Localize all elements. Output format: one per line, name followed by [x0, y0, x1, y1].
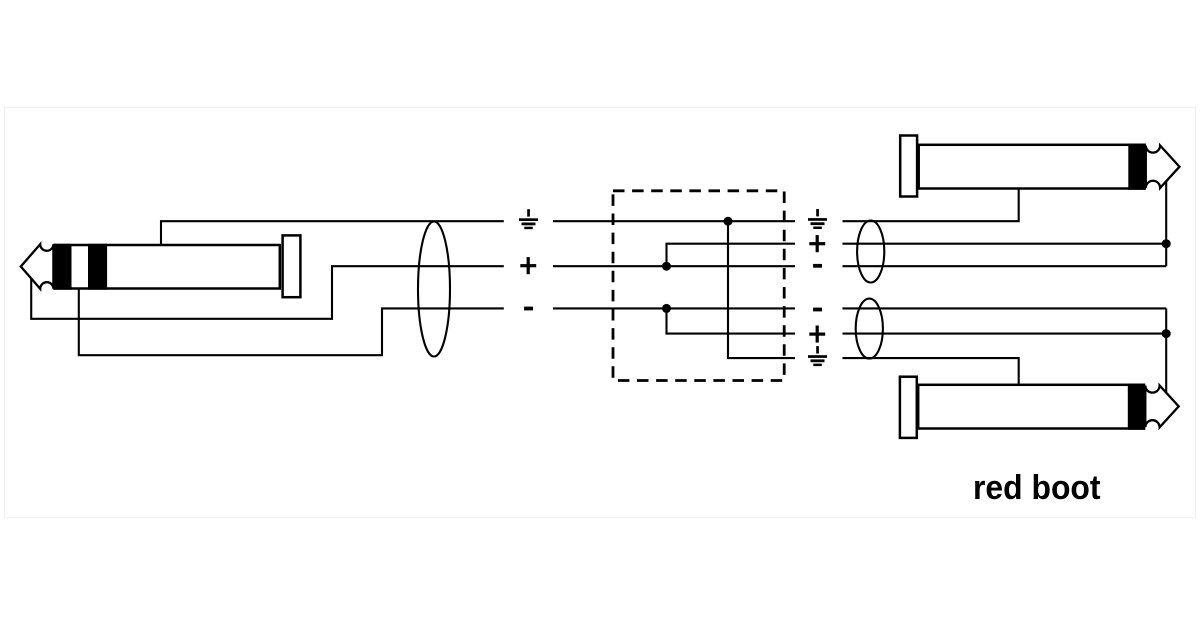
svg-text:red boot: red boot [973, 469, 1101, 507]
